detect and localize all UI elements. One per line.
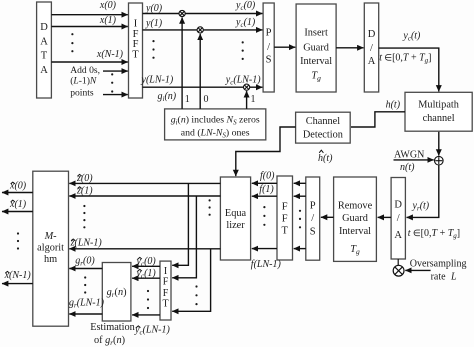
svg-text:F: F: [282, 214, 288, 225]
block Remove Guard Interval Tg: [334, 177, 377, 261]
svg-text:I: I: [164, 266, 167, 277]
wire z-hat(0) Equalizer to M-algorithm: [69, 173, 220, 184]
svg-text:D: D: [368, 29, 376, 40]
wire x(1) DATA to IFFT: [51, 15, 127, 27]
svg-text:f(0): f(0): [260, 171, 275, 182]
dots between add-zeros inputs: [111, 73, 113, 92]
svg-text:y(0): y(0): [145, 3, 163, 14]
svg-text:rate: rate: [431, 272, 447, 283]
svg-text:f(LN-1): f(LN-1): [251, 259, 282, 270]
note box g_i(n) includes N_S zeros and (LN-N_S) ones: [165, 109, 266, 140]
svg-text:Channel: Channel: [306, 116, 340, 127]
wire x(0) DATA to IFFT: [51, 0, 127, 15]
block Channel Detection: [296, 112, 351, 143]
svg-text:yc(1): yc(1): [235, 17, 256, 29]
svg-text:Equa: Equa: [225, 208, 247, 219]
wire Insert Guard to D/A: [336, 47, 363, 49]
block Equalizer: [220, 177, 250, 260]
svg-text:n(t): n(t): [400, 162, 415, 173]
wire y-hat_c(1) IFFT to g_r(n): [132, 268, 160, 280]
svg-text:T: T: [132, 50, 139, 61]
svg-text:Multipath: Multipath: [418, 99, 459, 110]
block D/A (transmit): [364, 3, 378, 92]
multiplier on y(LN-1): [244, 84, 250, 90]
wire x-hat(0) output: [2, 181, 33, 193]
svg-text:Oversampling: Oversampling: [410, 259, 467, 270]
wire AWGN n(t) into adder: [394, 150, 434, 173]
svg-text:gi(n): gi(n): [158, 91, 177, 103]
svg-text:gr(0): gr(0): [75, 255, 95, 267]
wire gate value 1 to multiplier y(LN-1): [247, 91, 256, 109]
tap wire from z-hat(LN-1) down to IFFT receive: [172, 249, 210, 311]
block M-algorithm: [33, 171, 69, 326]
svg-text:h(t): h(t): [386, 100, 401, 111]
svg-text:Remove: Remove: [338, 200, 373, 211]
wire P/S to FFT line 1: [294, 195, 306, 197]
dots between x(1) and x(N-1): [71, 33, 73, 52]
wire oversampling rate into sampler: [405, 259, 466, 283]
svg-text:/: /: [397, 213, 400, 224]
wire y-hat_c(LN-1) IFFT to g_r(n): [132, 315, 170, 337]
svg-text:0: 0: [204, 94, 209, 105]
svg-text:x(0): x(0): [99, 0, 117, 11]
block FFT (receive): [277, 176, 293, 260]
wire D/A to Remove Guard: [378, 216, 392, 218]
svg-text:S: S: [266, 55, 272, 66]
caption Add 0s, (L-1)N points: [70, 65, 100, 99]
dots between M-algorithm and Equalizer: [83, 205, 85, 229]
svg-text:F: F: [163, 288, 169, 299]
wire gate value 1 to multiplier y(0): [182, 17, 190, 109]
block D/A (receive): [391, 178, 405, 260]
dots before P/S: [242, 41, 244, 60]
svg-text:x(1): x(1): [99, 15, 117, 26]
wire g_r(0) to M-algorithm: [69, 255, 102, 268]
tap wire from z-hat(1) down to IFFT receive: [172, 196, 196, 278]
svg-text:S: S: [310, 227, 316, 238]
block P/S (transmit): [263, 3, 274, 92]
wire f(LN-1) FFT to Equalizer: [251, 249, 282, 270]
wire gate value 0 to multiplier y(1): [200, 34, 208, 109]
caption Estimation of g_r(n): [90, 322, 135, 347]
tap wire from z-hat(0) down to IFFT receive: [172, 183, 188, 265]
dots IFFT outputs: [152, 40, 154, 59]
svg-text:/: /: [267, 42, 270, 53]
svg-text:gi(n) includes NS zeros: gi(n) includes NS zeros: [171, 114, 260, 126]
svg-text:M-: M-: [44, 231, 58, 242]
block P/S (receive): [306, 177, 320, 260]
svg-text:gr(n): gr(n): [107, 287, 127, 299]
dots right of IFFT receive: [195, 285, 197, 305]
svg-text:A: A: [40, 65, 48, 76]
svg-text:and (LN-NS) ones: and (LN-NS) ones: [181, 127, 250, 139]
sampler multiplier below D/A: [393, 259, 404, 276]
dots left of Equalizer: [209, 199, 211, 216]
dots left of M-algorithm: [17, 232, 19, 249]
wire D/A to Multipath channel: [379, 31, 439, 92]
svg-text:Detection: Detection: [303, 130, 343, 141]
svg-text:Estimation: Estimation: [90, 322, 135, 333]
wire z-hat(1) Equalizer to M-algorithm: [69, 185, 220, 196]
wire Multipath to adder: [438, 132, 440, 156]
svg-text:h(t): h(t): [318, 153, 333, 164]
wire add-zeros input 1: [103, 70, 128, 72]
wire adder down to D/A receive: [407, 165, 439, 217]
svg-text:lizer: lizer: [226, 220, 245, 231]
svg-text:F: F: [282, 202, 288, 213]
svg-text:f(1): f(1): [259, 184, 274, 195]
svg-text:P: P: [266, 27, 272, 38]
wire x-hat(N-1) output: [2, 270, 33, 284]
svg-text:D: D: [40, 22, 48, 33]
wire P/S to FFT line LN-1: [294, 248, 306, 250]
wire Remove Guard to P/S: [321, 216, 334, 218]
wire P/S to FFT line 0: [294, 182, 306, 184]
svg-text:channel: channel: [423, 113, 455, 124]
svg-text:/: /: [370, 43, 373, 54]
dots between FFT and P/S: [299, 210, 301, 229]
svg-text:x(1): x(1): [9, 199, 27, 210]
svg-text:T: T: [281, 226, 288, 237]
svg-text:hm: hm: [44, 254, 57, 265]
svg-text:algorit: algorit: [37, 243, 64, 254]
block IFFT (transmit): [129, 3, 143, 98]
wire h(t) Multipath to Channel Detection: [351, 100, 405, 127]
svg-text:y(1): y(1): [145, 18, 163, 29]
svg-text:yc(0): yc(0): [235, 0, 256, 12]
wire g_r(LN-1) to M-algorithm: [69, 298, 105, 315]
svg-text:points: points: [70, 88, 94, 99]
svg-text:x(0): x(0): [9, 181, 27, 192]
svg-text:Insert: Insert: [304, 28, 328, 39]
wire P/S to Insert Guard: [274, 46, 295, 48]
svg-text:T: T: [41, 51, 48, 62]
svg-text:T: T: [162, 299, 168, 310]
wire y-hat_c(0) IFFT to g_r(n): [132, 256, 160, 268]
wire z-hat(LN-1) Equalizer to M-algorithm: [69, 238, 220, 249]
svg-text:D: D: [394, 200, 402, 211]
wire x(N-1) DATA to IFFT: [51, 49, 127, 62]
block Insert Guard Interval Tg: [296, 4, 336, 92]
svg-text:(L-1)N: (L-1)N: [70, 76, 97, 87]
dots between Equalizer and FFT: [263, 206, 265, 226]
multiplier on y(1): [197, 27, 203, 33]
dots between g_r(n) and IFFT receive: [147, 290, 149, 309]
wire f(0) FFT to Equalizer: [252, 171, 277, 184]
svg-text:A: A: [40, 36, 48, 47]
svg-text:F: F: [163, 277, 169, 288]
adder AWGN: [435, 156, 444, 165]
svg-text:Add 0s,: Add 0s,: [70, 65, 100, 76]
svg-text:y(LN-1): y(LN-1): [141, 74, 174, 85]
block IFFT (receive, small): [160, 261, 171, 320]
dots between g_r wires: [84, 276, 86, 293]
svg-text:1: 1: [185, 94, 190, 105]
wire y(1) IFFT to P/S: [143, 17, 263, 30]
svg-text:Interval: Interval: [339, 226, 371, 237]
svg-text:yr(t): yr(t): [412, 201, 430, 213]
svg-text:L: L: [450, 272, 457, 283]
svg-text:x(N-1): x(N-1): [96, 49, 124, 60]
wire x-hat(1) output: [2, 199, 33, 212]
svg-text:z(LN-1): z(LN-1): [70, 238, 103, 249]
wire y(0) IFFT to P/S: [143, 0, 263, 14]
svg-text:Interval: Interval: [300, 56, 332, 67]
svg-text:P: P: [310, 201, 316, 212]
svg-text:AWGN: AWGN: [394, 150, 424, 161]
svg-text:of gr(n): of gr(n): [94, 335, 125, 347]
multiplier on y(0): [179, 10, 185, 16]
wire f(1) FFT to Equalizer: [252, 184, 277, 196]
wire h-hat Channel Detection to Equalizer: [236, 127, 333, 176]
wire y(LN-1) IFFT to P/S: [141, 74, 263, 87]
svg-text:Guard: Guard: [303, 43, 330, 54]
svg-text:A: A: [394, 230, 402, 241]
wire add-zeros input 2: [103, 94, 128, 96]
svg-text:A: A: [368, 56, 376, 67]
block g_r(n) estimator: [102, 263, 131, 322]
svg-text:yc(t): yc(t): [402, 31, 421, 43]
svg-text:/: /: [311, 213, 314, 224]
block Multipath channel: [405, 92, 472, 131]
svg-text:Guard: Guard: [342, 213, 369, 224]
block DATA: [37, 2, 52, 98]
svg-text:1: 1: [251, 94, 256, 105]
